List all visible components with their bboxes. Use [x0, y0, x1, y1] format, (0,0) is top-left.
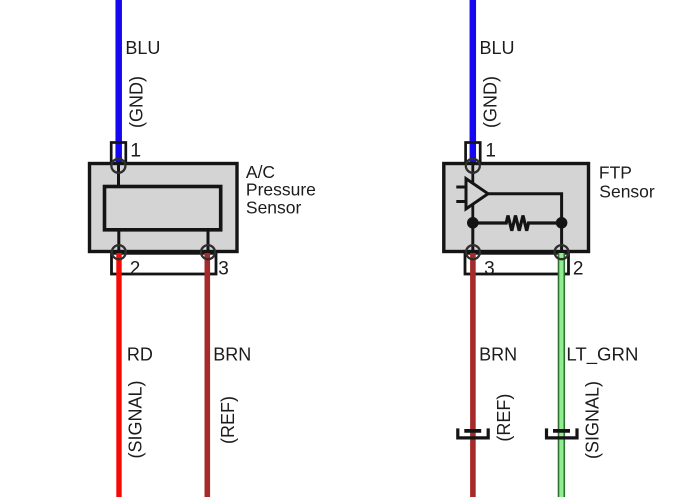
wire inner element to pin 2 — [117, 230, 120, 252]
svg-text:BRN: BRN — [213, 344, 251, 364]
wire right node to pin 2 — [560, 223, 563, 252]
wire BRN right (REF) — [470, 253, 476, 497]
label A/C Pressure Sensor — [246, 162, 316, 217]
svg-text:1: 1 — [485, 141, 496, 162]
pin 2 circle right — [555, 245, 569, 259]
op-amp U1 — [466, 179, 488, 209]
wire BRN left (REF) — [205, 253, 211, 497]
svg-text:3: 3 — [218, 259, 229, 280]
node dot right — [556, 217, 568, 229]
svg-text:(SIGNAL): (SIGNAL) — [125, 380, 145, 458]
resistor R1 — [473, 216, 562, 231]
op-amp input stub top — [456, 186, 466, 189]
svg-text:2: 2 — [573, 259, 584, 280]
inline connector symbol on LT_GRN — [547, 428, 578, 438]
svg-text:(SIGNAL): (SIGNAL) — [583, 381, 603, 459]
wire op-amp output to right node — [488, 194, 562, 223]
svg-text:Sensor: Sensor — [599, 182, 655, 202]
wire RD (SIGNAL) — [116, 253, 121, 497]
wire pin1 to inner element — [117, 164, 120, 187]
svg-text:FTP: FTP — [599, 163, 632, 183]
wire LT_GRN (SIGNAL) inner — [559, 253, 563, 497]
connector pin 1 box left — [111, 143, 126, 164]
svg-text:(GND): (GND) — [127, 76, 147, 128]
node dot left — [467, 217, 479, 229]
wire pin1 down to node — [471, 164, 474, 223]
svg-text:(REF): (REF) — [218, 396, 238, 444]
wire left node to pin 3 — [471, 223, 474, 252]
sensor box FTP Sensor — [444, 164, 589, 252]
inner element rectangle — [105, 187, 221, 230]
bottom connector block left — [112, 253, 217, 274]
pin 3 circle right — [466, 245, 480, 259]
svg-text:RD: RD — [127, 344, 153, 364]
svg-text:BLU: BLU — [480, 38, 515, 58]
wire BLU left (GND) — [115, 0, 122, 166]
wire inner element to pin 3 — [207, 230, 210, 252]
svg-text:(GND): (GND) — [481, 76, 501, 128]
svg-text:Sensor: Sensor — [246, 197, 302, 217]
sensor box A/C Pressure Sensor — [90, 164, 238, 252]
svg-text:3: 3 — [484, 259, 495, 280]
svg-text:1: 1 — [130, 140, 141, 162]
connector pin 1 box right — [466, 143, 481, 164]
bottom connector block right — [465, 253, 569, 274]
pin 1 circle right — [466, 159, 480, 173]
pin 1 circle left — [111, 159, 125, 173]
pin 2 circle left — [112, 245, 126, 259]
inline connector symbol on BRN right — [458, 428, 488, 438]
svg-text:2: 2 — [130, 259, 141, 280]
pin 3 circle left — [201, 245, 215, 259]
svg-text:LT_GRN: LT_GRN — [566, 343, 638, 365]
svg-text:BLU: BLU — [125, 38, 160, 58]
wire BLU right (GND) — [470, 0, 477, 166]
svg-text:BRN: BRN — [479, 344, 517, 364]
label FTP Sensor — [599, 163, 655, 202]
svg-text:(REF): (REF) — [494, 394, 514, 442]
wire LT_GRN (SIGNAL) outer — [558, 253, 565, 497]
op-amp input stub bottom — [456, 200, 466, 203]
